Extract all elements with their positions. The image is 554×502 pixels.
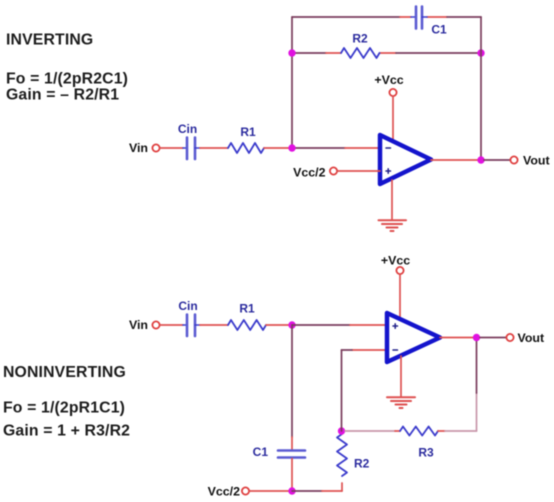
wire Cin to R1 (bottom) — [200, 324, 228, 326]
terminal Vout (top) — [510, 156, 517, 163]
capacitor Cin (top) — [183, 138, 200, 160]
wire +Vcc to op-amp (top) — [392, 97, 394, 142]
wire right feedback vertical (top) — [480, 17, 482, 160]
terminal Vcc/2 (bottom) — [242, 487, 249, 494]
svg-text:+Vcc: +Vcc — [381, 254, 410, 268]
wire R1 to node C (bottom) — [266, 324, 292, 326]
wire bottom rail C1 junction to R2 — [292, 483, 342, 491]
wire Vin to Cin (bottom) — [160, 324, 183, 326]
ground (bottom) — [387, 397, 415, 408]
resistor R2 (bottom) — [337, 434, 347, 476]
node left R2 junction — [288, 49, 295, 56]
wire node C to op-amp plus input (bottom) — [292, 324, 387, 326]
wire R2 feedback rail — [292, 52, 481, 54]
svg-text:R3: R3 — [418, 446, 434, 460]
terminal Vin (bottom) — [152, 321, 159, 328]
svg-text:Fo = 1/(2pR1C1): Fo = 1/(2pR1C1) — [3, 400, 125, 417]
op-amp U2 — [387, 313, 440, 362]
svg-text:Fo = 1/(2pR2C1): Fo = 1/(2pR2C1) — [6, 71, 128, 88]
op-amp U1 — [380, 135, 431, 184]
svg-text:Vout: Vout — [523, 154, 550, 168]
wire op-amp minus input to node E (bottom) — [342, 350, 388, 431]
svg-text:R1: R1 — [239, 302, 255, 316]
wire node C down to C1 (bottom) — [291, 325, 293, 449]
node F output junction (bottom) — [473, 334, 480, 341]
wire op-amp output to node F (bottom) — [440, 337, 477, 339]
wire op-amp to ground (top) — [391, 180, 393, 219]
svg-text:C1: C1 — [253, 445, 269, 459]
capacitor Cin (bottom) — [183, 315, 200, 337]
wire op-amp to ground (bottom) — [400, 356, 402, 396]
wire +Vcc to op-amp (bottom) — [399, 275, 401, 320]
wire C1 feedback top rail — [292, 16, 481, 18]
wire Vcc/2 to op-amp plus input (top) — [338, 170, 381, 172]
wire feedback vertical to output node (bottom) — [476, 337, 478, 431]
svg-text:R1: R1 — [240, 125, 256, 139]
svg-text:+Vcc: +Vcc — [374, 73, 403, 87]
wire node E to R3 — [345, 430, 400, 432]
svg-text:Vout: Vout — [518, 331, 545, 345]
wire R3 to feedback vertical — [438, 430, 477, 432]
capacitor C1 (bottom) — [278, 451, 305, 458]
terminal Vin (top) — [152, 144, 159, 151]
node C plus input junction (bottom) — [288, 321, 295, 328]
terminal +Vcc (top) — [389, 89, 396, 96]
wire node B to Vout (top) — [484, 159, 510, 161]
svg-text:Gain = – R2/R1: Gain = – R2/R1 — [6, 87, 119, 104]
pin minus U2 — [393, 349, 398, 351]
resistor R2 (top) — [341, 48, 380, 58]
svg-text:R2: R2 — [352, 32, 368, 46]
wire Cin to R1 (top) — [200, 147, 228, 149]
pin plus U1 — [386, 169, 391, 174]
wire op-amp output to node B (top) — [431, 159, 481, 161]
wire C1 to bottom rail — [291, 459, 293, 492]
svg-text:Gain = 1 + R3/R2: Gain = 1 + R3/R2 — [3, 423, 130, 440]
terminal Vcc/2 (top) — [330, 167, 337, 174]
resistor R1 (bottom) — [228, 320, 266, 330]
wire Vin to Cin (top) — [160, 147, 183, 149]
pin minus U1 — [386, 147, 391, 149]
svg-text:INVERTING: INVERTING — [6, 32, 93, 49]
svg-text:R2: R2 — [354, 457, 370, 471]
svg-text:Vin: Vin — [129, 141, 148, 155]
node right R2 junction — [477, 49, 484, 56]
pin plus U2 — [393, 324, 398, 329]
wire R1 to node A (top) — [264, 147, 292, 149]
svg-text:Vcc/2: Vcc/2 — [208, 485, 240, 499]
wire node F to Vout (bottom) — [480, 337, 506, 339]
node B output junction (top) — [477, 156, 484, 163]
wire R2 top lead to node E — [341, 431, 343, 434]
terminal +Vcc (bottom) — [396, 267, 403, 274]
node E R2 R3 junction — [338, 427, 345, 434]
node D bottom rail junction — [288, 487, 295, 494]
wire node A to op-amp inverting input — [292, 147, 380, 149]
terminal Vout (bottom) — [506, 334, 513, 341]
svg-text:Vcc/2: Vcc/2 — [293, 166, 325, 180]
resistor R1 (top) — [228, 143, 264, 153]
wire bottom rail Vcc/2 to C1 junction — [250, 490, 293, 492]
node A inverting input junction — [288, 144, 295, 151]
svg-text:Vin: Vin — [129, 318, 148, 332]
capacitor C1 (top) — [411, 7, 427, 29]
svg-text:Cin: Cin — [178, 299, 197, 313]
svg-text:NONINVERTING: NONINVERTING — [3, 364, 126, 381]
svg-text:Cin: Cin — [178, 122, 197, 136]
wire left feedback vertical (top) — [291, 17, 293, 148]
svg-text:C1: C1 — [431, 23, 447, 37]
resistor R3 — [400, 427, 438, 436]
ground (top) — [379, 220, 407, 231]
